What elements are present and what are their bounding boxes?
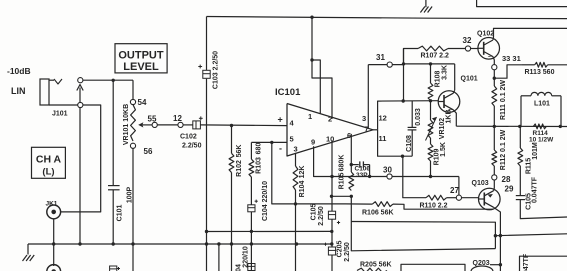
svg-text:R105: R105	[339, 173, 346, 190]
svg-text:C108: C108	[406, 135, 413, 152]
svg-text:6: 6	[347, 131, 351, 140]
svg-text:(L): (L)	[42, 167, 54, 178]
svg-text:29: 29	[505, 185, 514, 194]
svg-text:32: 32	[463, 36, 472, 45]
svg-text:J101: J101	[52, 111, 68, 118]
svg-text:C205: C205	[337, 241, 344, 258]
svg-text:OUTPUT: OUTPUT	[118, 49, 164, 61]
svg-text:680K: 680K	[339, 155, 346, 172]
svg-text:680: 680	[256, 143, 263, 155]
svg-text:Q102: Q102	[477, 31, 494, 38]
svg-text:10: 10	[326, 135, 334, 144]
svg-text:2: 2	[328, 115, 332, 124]
svg-text:R111 0.1 2W: R111 0.1 2W	[500, 80, 507, 120]
svg-text:R112 0.1 2W: R112 0.1 2W	[500, 129, 507, 170]
svg-text:C103 2.2/50: C103 2.2/50	[213, 51, 220, 89]
svg-text:3: 3	[294, 145, 298, 154]
svg-text:R102: R102	[236, 160, 243, 177]
svg-text:R110 2.2: R110 2.2	[420, 203, 448, 210]
svg-text:LEVEL: LEVEL	[123, 61, 159, 73]
svg-text:04: 04	[236, 264, 243, 271]
svg-text:R103: R103	[256, 157, 263, 174]
svg-text:1: 1	[308, 112, 312, 121]
svg-text:IC101: IC101	[275, 87, 301, 98]
svg-text:9: 9	[311, 138, 315, 147]
svg-text:2.2/50: 2.2/50	[344, 242, 351, 262]
svg-text:C102: C102	[180, 134, 197, 141]
svg-text:R106 56K: R106 56K	[362, 210, 394, 217]
svg-text:12K: 12K	[299, 166, 306, 179]
svg-text:2.2/50: 2.2/50	[182, 143, 202, 150]
svg-text:31: 31	[376, 53, 385, 62]
svg-text:33 31: 33 31	[502, 54, 521, 63]
svg-text:33P: 33P	[356, 172, 368, 179]
svg-text:54: 54	[138, 98, 147, 107]
svg-text:-10dB: -10dB	[7, 66, 31, 76]
svg-text:28: 28	[502, 175, 511, 184]
svg-text:12: 12	[173, 114, 182, 123]
svg-text:+: +	[278, 114, 283, 124]
svg-text:0.047TF: 0.047TF	[532, 176, 539, 203]
svg-text:LIN: LIN	[11, 86, 26, 96]
svg-text:C104 220/10: C104 220/10	[262, 181, 269, 221]
svg-text:0.033: 0.033	[415, 108, 422, 126]
svg-text:1.5K: 1.5K	[440, 142, 447, 157]
svg-text:CH A: CH A	[36, 153, 62, 165]
svg-text:Q103: Q103	[472, 180, 489, 187]
svg-text:-: -	[279, 144, 282, 154]
svg-text:C101: C101	[117, 205, 124, 222]
svg-text:2.2/50: 2.2/50	[318, 206, 325, 226]
svg-text:C105: C105	[311, 204, 318, 221]
svg-text:100P: 100P	[127, 187, 134, 204]
svg-text:101M: 101M	[532, 142, 539, 160]
svg-text:JK1: JK1	[46, 201, 58, 208]
svg-text:3.3K: 3.3K	[442, 65, 449, 80]
svg-text:56: 56	[144, 147, 153, 156]
svg-text:220/10: 220/10	[243, 246, 250, 268]
svg-text:R104: R104	[299, 181, 306, 198]
svg-text:30: 30	[383, 165, 392, 174]
svg-text:3: 3	[362, 114, 366, 123]
svg-text:R107 2.2: R107 2.2	[421, 53, 450, 60]
svg-text:047TF: 047TF	[523, 253, 530, 271]
svg-text:5: 5	[290, 135, 294, 144]
svg-text:R108: R108	[435, 71, 442, 88]
svg-text:VR101 10KB: VR101 10KB	[123, 104, 130, 145]
svg-text:12: 12	[379, 114, 387, 123]
svg-text:56K: 56K	[236, 145, 243, 158]
svg-text:27: 27	[450, 186, 459, 195]
svg-text:11: 11	[379, 134, 387, 143]
svg-text:Q101: Q101	[461, 76, 478, 83]
svg-text:R113 560: R113 560	[525, 69, 555, 76]
svg-text:55: 55	[148, 115, 157, 124]
svg-text:R205 56K: R205 56K	[360, 262, 392, 269]
svg-text:L101: L101	[534, 101, 550, 108]
